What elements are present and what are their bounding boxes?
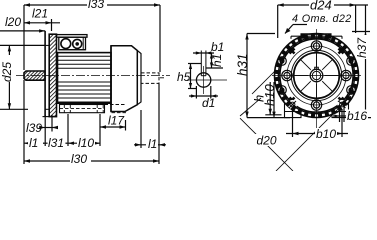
svg-text:d1: d1 — [202, 96, 215, 110]
svg-text:l33: l33 — [88, 0, 104, 11]
foot (solid) — [60, 105, 105, 113]
d20 upper pointer — [252, 70, 276, 94]
section centrelines — [187, 79, 227, 81]
dim l30 — [24, 160, 159, 162]
svg-text:l20: l20 — [5, 15, 21, 29]
shaft (front shaft extension, hatched) — [24, 71, 45, 80]
bolt holes N E S W — [282, 41, 351, 110]
label b16 — [346, 109, 368, 123]
hub — [310, 69, 323, 82]
svg-text:h5: h5 — [177, 70, 191, 84]
dim l17 — [99, 114, 101, 146]
hole top — [311, 41, 321, 51]
terminal box silhouette (front view, top) — [291, 34, 342, 39]
label l10 — [77, 136, 95, 150]
dim l21 — [24, 22, 60, 24]
hub keyway — [315, 67, 319, 69]
label d20 — [255, 134, 280, 148]
leader 4 holes d22 — [293, 24, 307, 26]
diagonal through right foot hole — [276, 96, 351, 171]
inner web circles — [291, 50, 341, 100]
left view labels — [0, 0, 158, 166]
cable gland circle right — [73, 39, 82, 48]
svg-text:b1: b1 — [211, 40, 224, 54]
terminal box body — [59, 37, 86, 50]
spigot circle — [280, 39, 353, 112]
svg-text:b16: b16 — [347, 109, 367, 123]
dim h5 — [188, 63, 201, 65]
shaft section circle — [196, 73, 210, 87]
dim b10 — [292, 109, 294, 137]
label l33 — [87, 0, 107, 11]
svg-text:l1: l1 — [148, 137, 157, 151]
svg-text:h31: h31 — [235, 53, 250, 76]
teeth of outer ring — [275, 34, 359, 118]
dim h37 — [352, 31, 370, 33]
label d25 — [0, 55, 14, 82]
motor centreline — [16, 75, 170, 77]
svg-text:l30: l30 — [71, 152, 87, 166]
svg-text:h10: h10 — [262, 84, 277, 106]
dim l39 — [44, 115, 46, 132]
rear stub centre tick — [160, 77, 164, 79]
hidden rear shaft stub (dashed) — [141, 73, 159, 84]
end-shield bolts — [278, 57, 356, 95]
hole bottom — [311, 100, 321, 110]
foot holes — [288, 100, 347, 109]
dim b16 — [339, 107, 341, 122]
right view labels — [235, 0, 369, 148]
svg-text:l21: l21 — [32, 7, 48, 21]
flange spigot face lines — [44, 31, 46, 117]
dims l1 / l31 / l10 (bottom row) — [23, 80, 25, 164]
label l1 rear — [146, 137, 158, 151]
dim l20 — [0, 30, 45, 32]
flange plate (hatched section) — [49, 34, 56, 116]
svg-text:4 Отв. d22: 4 Отв. d22 — [292, 13, 352, 25]
bolt circle — [287, 46, 346, 105]
svg-text:h1: h1 — [210, 54, 224, 67]
V / diagonal construction lines — [240, 70, 351, 171]
svg-text:d25: d25 — [0, 62, 14, 82]
dim h31 — [247, 33, 275, 35]
dim l1 (rear stub) — [140, 110, 142, 148]
svg-text:l17: l17 — [108, 114, 125, 128]
svg-text:l1: l1 — [29, 136, 38, 150]
label b10 — [315, 127, 337, 141]
d20 diagonal dimension line — [240, 118, 293, 171]
svg-text:h37: h37 — [355, 37, 369, 58]
dim d24 — [278, 4, 368, 6]
svg-text:d24: d24 — [310, 0, 332, 13]
label h37 — [355, 35, 369, 59]
svg-text:d20: d20 — [257, 134, 277, 148]
label d24 — [309, 0, 334, 13]
cable gland circle left — [61, 39, 71, 49]
motor body outline — [58, 53, 112, 104]
dim h10 — [273, 82, 275, 118]
label l31 — [48, 136, 66, 150]
centrelines — [272, 29, 361, 133]
body cooling fins — [58, 56, 112, 102]
dim h1 — [206, 67, 223, 69]
svg-text:l31: l31 — [48, 136, 64, 150]
terminal box lid — [56, 35, 87, 38]
feet — [285, 103, 349, 118]
svg-text:l10: l10 — [78, 136, 94, 150]
svg-text:b10: b10 — [316, 127, 336, 141]
outer finned ring — [275, 34, 359, 118]
hole left — [282, 70, 292, 80]
dim h (axis height) — [269, 82, 271, 115]
dim d1 — [195, 86, 197, 99]
label l1 — [28, 136, 43, 150]
fan cowl — [111, 46, 137, 112]
hole right — [341, 70, 351, 80]
dim b1 — [193, 52, 214, 54]
spokes — [294, 53, 340, 99]
label l30 — [70, 152, 91, 166]
keyway slot — [200, 51, 202, 76]
hidden foot lines (dashed) — [60, 105, 127, 113]
dim l33 — [24, 4, 160, 6]
diagonal clamp marks — [290, 49, 344, 103]
dim d25 — [0, 44, 45, 46]
diagonal stub at h31 corner — [240, 98, 261, 116]
svg-text:l39: l39 — [26, 121, 42, 135]
